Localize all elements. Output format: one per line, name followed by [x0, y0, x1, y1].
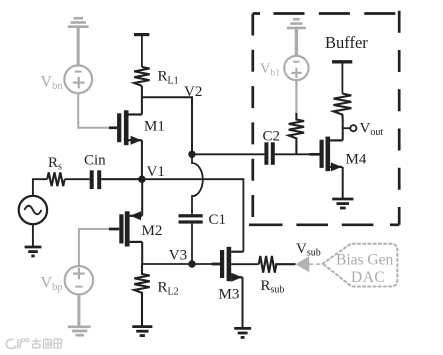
- Bias Gen DAC box (dotted): [323, 244, 398, 287]
- wire: [341, 62, 343, 94]
- gray bias network: [64, 18, 397, 335]
- svg-text:Rsub: Rsub: [261, 278, 285, 296]
- supply bar top (RL1): [134, 33, 149, 36]
- transistor M2: [109, 179, 142, 264]
- resistor Vb1 bias: [289, 113, 304, 154]
- svg-text:RL1: RL1: [158, 69, 179, 87]
- wire RL1 to M1 drain / V2: [141, 86, 143, 115]
- node V3 dot: [188, 260, 195, 267]
- svg-text:Vbp: Vbp: [41, 275, 63, 294]
- terminal Vout circle: [350, 125, 356, 131]
- ground below M4: [332, 199, 353, 208]
- voltage source Vb1: [284, 56, 308, 80]
- wire hop over V1 line: [192, 154, 203, 214]
- voltage source Vbn: [64, 65, 92, 93]
- resistor RL2: [134, 264, 149, 326]
- wire Vbn to M1 gate: [78, 93, 109, 128]
- ac source vin: [19, 196, 47, 224]
- capacitor C1: [179, 214, 203, 223]
- svg-text:Rs: Rs: [48, 155, 62, 173]
- wire vin to Rs: [33, 179, 47, 196]
- svg-text:Vout: Vout: [360, 121, 384, 139]
- capacitor C2: [264, 142, 274, 165]
- svg-text:C1: C1: [209, 212, 227, 228]
- wire C2 to M4 gate: [275, 153, 310, 155]
- wire dot to C2: [192, 153, 264, 155]
- watermark: [6, 338, 61, 349]
- svg-text:Cin: Cin: [84, 153, 106, 169]
- wire to Vout: [343, 127, 351, 129]
- svg-text:DAC: DAC: [351, 269, 385, 286]
- resistor RL1: [134, 67, 149, 86]
- svg-text:V1: V1: [147, 164, 165, 180]
- svg-text:Buffer: Buffer: [325, 33, 368, 52]
- svg-text:V3: V3: [169, 248, 187, 264]
- supply bar top (buffer): [332, 60, 352, 63]
- ground (gray, inverted) above Vbn: [68, 18, 89, 65]
- node Vsub arrow (gray): [296, 256, 310, 272]
- resistor buffer load: [334, 94, 352, 119]
- svg-text:M4: M4: [346, 152, 367, 168]
- svg-text:Vb1: Vb1: [260, 61, 280, 79]
- ground (gray, inverted) above Vb1: [287, 19, 306, 56]
- wire C1 to V3: [191, 224, 193, 264]
- ground below M3: [234, 328, 251, 337]
- ground below vin: [25, 247, 42, 256]
- wire Rs to Cin: [65, 178, 90, 180]
- wire vin to ground: [32, 224, 34, 247]
- svg-text:V2: V2: [184, 84, 202, 100]
- capacitor Cin: [90, 170, 102, 189]
- wire Vb1 down: [295, 80, 297, 113]
- resistor Rs: [47, 172, 64, 186]
- transistor M4: [310, 119, 343, 199]
- wire node V2 top: [142, 97, 192, 154]
- svg-text:Vsub: Vsub: [296, 241, 321, 259]
- wire: [141, 35, 143, 67]
- dashed link DAC to arrow: [309, 263, 323, 265]
- wire Cin to V1: [101, 178, 142, 180]
- transistor M1: [109, 110, 142, 179]
- svg-text:M2: M2: [142, 223, 163, 239]
- voltage source Vbp: [65, 266, 93, 294]
- wire node V3 row: [142, 263, 211, 265]
- wire Vbp to M2 gate: [79, 229, 110, 266]
- svg-text:RL2: RL2: [158, 280, 179, 298]
- resistor Rsub: [259, 256, 296, 273]
- transistor M3: [211, 247, 259, 328]
- svg-text:Vbn: Vbn: [41, 74, 64, 93]
- node junction dot (V2 col / C2): [188, 151, 195, 158]
- svg-text:C2: C2: [263, 129, 281, 145]
- svg-text:M1: M1: [144, 119, 165, 135]
- ground below RL2: [132, 327, 152, 336]
- Buffer dashed box: [249, 11, 399, 225]
- ground (gray) below Vbp: [68, 294, 91, 335]
- node V1 dot: [138, 176, 145, 183]
- svg-text:M3: M3: [219, 287, 240, 303]
- svg-text:Bias Gen: Bias Gen: [336, 252, 394, 269]
- wire V1 to M3 drain: [101, 179, 243, 252]
